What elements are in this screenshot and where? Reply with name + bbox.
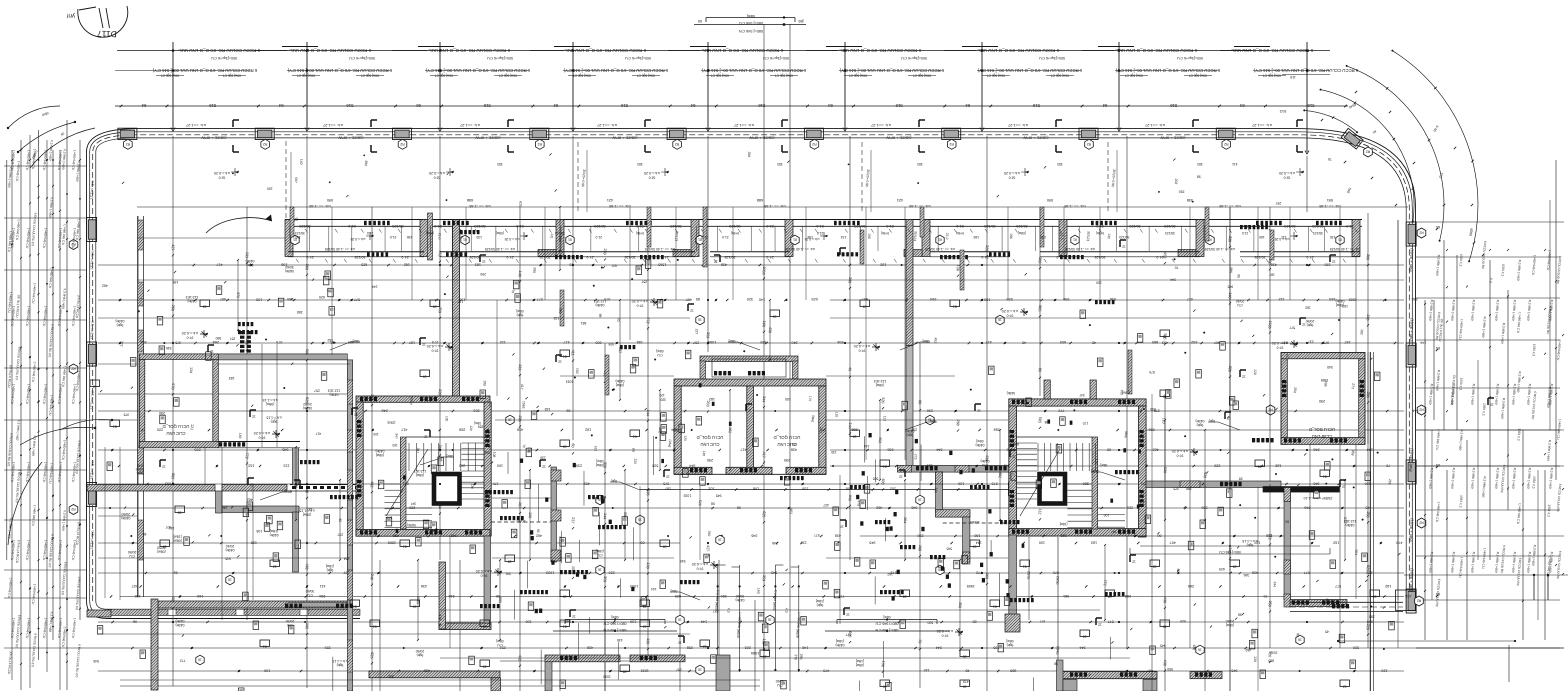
svg-text:500=]3qc+6 C'U: 500=]3qc+6 C'U: [487, 56, 513, 60]
svg-text:237: 237: [571, 517, 576, 523]
svg-text:30/123: 30/123: [1016, 224, 1027, 228]
beam text in top band: [89, 123, 1414, 592]
svg-text:131: 131: [550, 233, 554, 239]
svg-text:187: 187: [409, 341, 415, 345]
svg-text:520: 520: [1353, 646, 1359, 650]
svg-text:130: 130: [444, 416, 448, 422]
svg-text:130: 130: [476, 235, 482, 239]
svg-text:00w] 9gb C'f: 00w] 9gb C'f: [499, 74, 517, 78]
svg-text:290: 290: [480, 272, 486, 276]
svg-text:359: 359: [438, 307, 443, 313]
svg-text:290: 290: [558, 307, 562, 313]
svg-text:21-0: 21-0: [390, 235, 397, 239]
svg-text:170: 170: [1094, 458, 1098, 464]
svg-text:12: 12: [1302, 323, 1306, 327]
svg-text:417: 417: [401, 428, 407, 432]
svg-text:500=]3qc+6 C'U: 500=]3qc+6 C'U: [901, 56, 927, 60]
svg-text:45: 45: [848, 367, 852, 371]
svg-text:577: 577: [1108, 620, 1114, 624]
svg-text:20/50: 20/50: [136, 467, 145, 471]
svg-text:21-0: 21-0: [1059, 233, 1064, 240]
svg-text:130: 130: [1330, 235, 1336, 239]
svg-text:340: 340: [1313, 482, 1319, 486]
dimension ladders under central core: [714, 565, 742, 672]
svg-text:9gb): 9gb): [1209, 419, 1215, 423]
svg-text:160: 160: [985, 573, 990, 579]
svg-text:427: 427: [823, 503, 829, 507]
svg-text:577: 577: [1335, 584, 1341, 588]
svg-text:195: 195: [1325, 263, 1331, 267]
svg-text:187: 187: [457, 299, 463, 303]
svg-text:0+9b): 0+9b): [956, 231, 964, 235]
svg-text:130: 130: [924, 668, 930, 672]
svg-text:61: 61: [263, 644, 267, 648]
right core treads: [1017, 442, 1038, 444]
extra interior grid lines: [98, 207, 1404, 691]
svg-text:9gb): 9gb): [117, 323, 124, 327]
svg-text:417: 417: [740, 448, 746, 452]
svg-text:438: 438: [1252, 571, 1258, 575]
svg-text:C'U: C'U: [497, 643, 503, 647]
svg-text:16: 16: [698, 318, 702, 322]
svg-text:61: 61: [568, 238, 572, 242]
svg-text:936: 936: [1110, 297, 1116, 301]
svg-text:570: 570: [604, 297, 610, 301]
right half long verticals: [1152, 207, 1398, 691]
svg-text:383: 383: [777, 162, 783, 166]
svg-text:30/123: 30/123: [1164, 224, 1175, 228]
svg-text:(18/2E + 9PW: (18/2E + 9PW: [338, 136, 363, 141]
svg-text:30/123: 30/123: [299, 224, 310, 228]
svg-text:12: 12: [977, 409, 981, 413]
svg-text:70: 70: [511, 289, 515, 293]
svg-text:160: 160: [974, 534, 980, 538]
svg-text:288: 288: [1125, 594, 1131, 598]
svg-text:30/60: 30/60: [736, 594, 745, 598]
svg-text:344: 344: [1272, 581, 1276, 587]
svg-text:19: 19: [963, 684, 967, 688]
east corridor beam y484: [1146, 352, 1568, 691]
svg-text:268: 268: [1412, 297, 1418, 301]
svg-text:1565: 1565: [1349, 298, 1357, 302]
svg-text:545: 545: [93, 659, 99, 663]
svg-text:427: 427: [171, 244, 176, 250]
svg-text:220: 220: [1214, 464, 1220, 468]
svg-text:D117: D117: [97, 29, 117, 40]
svg-text:187: 187: [1344, 340, 1350, 344]
svg-text:958: 958: [1149, 428, 1155, 432]
svg-text:605: 605: [294, 480, 299, 486]
svg-text:9gb): 9gb): [1247, 543, 1254, 547]
svg-text:16: 16: [1198, 648, 1202, 652]
svg-text:21-0: 21-0: [886, 224, 893, 228]
svg-text:19: 19: [563, 594, 567, 598]
right margin vertical dim lines upper: [1433, 300, 1435, 420]
svg-text:344: 344: [370, 394, 375, 400]
svg-text:885: 885: [1038, 305, 1043, 311]
band end cap bottom right: [1396, 590, 1416, 611]
svg-text:u.k. == -1.48: u.k. == -1.48: [764, 204, 785, 208]
svg-text:411: 411: [320, 584, 326, 588]
hexagons below wall: [291, 235, 299, 245]
svg-text:30/123: 30/123: [594, 224, 605, 228]
svg-text:290: 290: [917, 534, 923, 538]
svg-text:500=]3qc+6 C'U: 500=]3qc+6 C'U: [211, 56, 237, 60]
svg-text:438: 438: [791, 448, 797, 452]
svg-text:131: 131: [841, 235, 847, 239]
svg-text:97-0: 97-0: [186, 336, 193, 340]
svg-text:(08w]: (08w]: [376, 453, 384, 457]
svg-text:78: 78: [1328, 157, 1332, 161]
left margin extra vertical dim lines: [7, 135, 82, 690]
svg-text:248: 248: [382, 409, 388, 413]
left outer angled arrows: [60, 419, 112, 430]
svg-text:359: 359: [760, 340, 766, 344]
svg-text:257: 257: [314, 388, 320, 392]
left core stair treads: [385, 483, 401, 485]
svg-text:453: 453: [438, 250, 443, 256]
svg-text:81: 81: [563, 624, 567, 628]
svg-text:625: 625: [518, 201, 522, 207]
svg-text:12: 12: [162, 465, 166, 469]
svg-text:417: 417: [520, 384, 524, 390]
svg-text:00w] 9gb C'f: 00w] 9gb C'f: [1051, 74, 1069, 78]
annotations bottom-left rooms: [121, 498, 349, 601]
svg-text:10: 10: [1163, 624, 1167, 628]
svg-text:21-0: 21-0: [945, 233, 950, 240]
svg-text:170: 170: [792, 442, 798, 446]
svg-text:0+9b): 0+9b): [636, 231, 644, 235]
svg-text:479: 479: [963, 679, 969, 683]
north wall extra labels and ties: [290, 226, 1335, 251]
svg-text:(08w]: (08w]: [496, 231, 504, 235]
svg-text:u.k. == -1.48: u.k. == -1.48: [309, 204, 330, 208]
svg-text:20/50: 20/50: [121, 512, 130, 516]
svg-text:453: 453: [1163, 252, 1168, 258]
svg-text:00w] 9gb C'f: 00w] 9gb C'f: [637, 74, 655, 78]
bottom band right side: [1290, 601, 1403, 603]
svg-text:407: 407: [612, 264, 618, 268]
svg-text:08w]: 08w]: [1012, 442, 1019, 446]
svg-text:08w]: 08w]: [447, 454, 454, 458]
svg-text:u.k.=-1.15: u.k.=-1.15: [263, 398, 278, 402]
svg-text:00w] 9gb C'f: 00w] 9gb C'f: [1125, 74, 1143, 78]
svg-text:427: 427: [706, 545, 711, 551]
svg-text:144: 144: [864, 444, 870, 448]
svg-text:134: 134: [189, 367, 194, 373]
svg-text:162: 162: [545, 407, 551, 411]
svg-text:u.k. == -1.40 30/125: u.k. == -1.40 30/125: [1330, 247, 1360, 251]
svg-text:257: 257: [713, 609, 719, 613]
svg-text:08w]: 08w]: [729, 339, 736, 343]
top-right corner dimension arcs: [1279, 50, 1493, 283]
svg-text:70: 70: [522, 444, 526, 448]
svg-text:12: 12: [678, 641, 682, 645]
svg-text:30/125: 30/125: [1255, 255, 1266, 259]
svg-text:347: 347: [394, 433, 398, 439]
svg-text:340: 340: [791, 341, 797, 345]
svg-text:203: 203: [140, 340, 146, 344]
svg-text:347: 347: [411, 501, 417, 505]
svg-text:0&9b): 0&9b): [329, 393, 338, 397]
svg-text:R2: R2: [1419, 231, 1423, 235]
svg-text:438: 438: [438, 614, 443, 620]
svg-text:(18/2E + 9PW: (18/2E + 9PW: [201, 136, 226, 141]
dimension ticks on horizontal grid lines: [109, 263, 1426, 673]
svg-text:64: 64: [965, 103, 970, 108]
svg-text:08w]: 08w]: [883, 615, 890, 619]
svg-text:00w] 9gb C'f: 00w] 9gb C'f: [913, 74, 931, 78]
junction dots on grid crossings: [172, 264, 1308, 649]
svg-text:246: 246: [1366, 314, 1371, 320]
svg-text:9gb): 9gb): [517, 313, 524, 317]
svg-text:24-0: 24-0: [1156, 255, 1163, 259]
columns on left edge band: [87, 218, 97, 242]
svg-text:R2: R2: [1366, 150, 1370, 154]
svg-text:121: 121: [190, 424, 195, 430]
svg-text:R2: R2: [126, 142, 130, 146]
svg-text:85: 85: [1236, 274, 1240, 278]
bottom zone extra annotations: [93, 619, 1344, 696]
svg-text:81: 81: [353, 604, 357, 608]
svg-text:438: 438: [421, 584, 427, 588]
svg-text:320: 320: [747, 297, 753, 301]
bottom mid bracket small: [1130, 545, 1330, 554]
svg-text:290: 290: [159, 411, 165, 415]
svg-text:24-0: 24-0: [766, 255, 773, 259]
svg-text:344: 344: [1413, 409, 1419, 413]
svg-text:160: 160: [756, 588, 760, 594]
svg-text:112: 112: [488, 401, 492, 407]
svg-text:347: 347: [1111, 529, 1117, 533]
svg-text:100: 100: [1039, 541, 1045, 545]
interior north wall double line: [285, 198, 1362, 466]
svg-text:945: 945: [1160, 644, 1166, 648]
svg-text:64: 64: [1239, 103, 1244, 108]
svg-text:550: 550: [215, 336, 221, 340]
svg-text:64: 64: [828, 103, 833, 108]
core area tag clusters: [373, 383, 1151, 548]
dark rebar dash clusters on wall: [364, 221, 367, 225]
svg-text:05: 05: [698, 19, 702, 23]
svg-text:(08w]: (08w]: [1018, 231, 1026, 235]
svg-text:144: 144: [603, 513, 608, 519]
svg-text:257: 257: [676, 667, 682, 671]
svg-text:u.k.=-0.20: u.k.=-0.20: [1279, 171, 1295, 175]
svg-text:08w]: 08w]: [596, 459, 603, 463]
svg-text:130: 130: [630, 620, 636, 624]
svg-text:688: 688: [467, 198, 473, 202]
svg-text:CLIC LNU: CLIC LNU: [166, 431, 185, 436]
svg-text:453: 453: [878, 437, 883, 443]
svg-text:0&9b): 0&9b): [835, 643, 844, 647]
svg-text:375: 375: [236, 292, 241, 298]
svg-text:945: 945: [451, 534, 457, 538]
svg-text:81: 81: [1323, 474, 1327, 478]
svg-text:15: 15: [623, 669, 627, 673]
svg-text:936: 936: [1063, 297, 1069, 301]
svg-text:30/125: 30/125: [355, 255, 366, 259]
svg-text:100: 100: [497, 464, 503, 468]
svg-text:97-0: 97-0: [696, 567, 703, 571]
svg-text:(08w]: (08w]: [856, 663, 864, 667]
svg-text:080=] 946 C'U: 080=] 946 C'U: [875, 622, 898, 626]
svg-text:UCI.U QOL_D: UCI.U QOL_D: [774, 435, 801, 440]
svg-text:102: 102: [890, 487, 896, 491]
svg-text:591: 591: [1327, 198, 1333, 202]
svg-text:162: 162: [593, 445, 597, 451]
svg-text:130: 130: [956, 265, 961, 271]
svg-text:00w] 9gb C'f: 00w] 9gb C'f: [435, 74, 453, 78]
svg-text:1033: 1033: [1270, 650, 1278, 654]
svg-text:12: 12: [1332, 260, 1336, 264]
svg-text:61: 61: [883, 464, 887, 468]
svg-text:130: 130: [646, 562, 651, 568]
svg-text:195: 195: [1141, 482, 1147, 486]
svg-text:605: 605: [1060, 340, 1066, 344]
svg-text:290: 290: [1179, 189, 1185, 193]
svg-text:112: 112: [1038, 508, 1042, 514]
svg-text:383: 383: [497, 162, 503, 166]
svg-text:520: 520: [698, 500, 702, 506]
svg-text:112: 112: [882, 416, 886, 422]
svg-text:u.k.=-0.25: u.k.=-0.25: [350, 237, 365, 241]
svg-text:346: 346: [911, 506, 917, 510]
svg-text:288: 288: [673, 428, 679, 432]
left core walls: [356, 396, 490, 402]
svg-text:61: 61: [403, 544, 407, 548]
svg-text:12: 12: [842, 253, 846, 257]
svg-text:625: 625: [319, 295, 325, 299]
svg-text:18: 18: [1258, 464, 1262, 468]
svg-text:08w]: 08w]: [474, 421, 481, 425]
svg-text:462: 462: [876, 506, 882, 510]
interior thin vertical grid lines: [173, 24, 1368, 691]
svg-text:20/50: 20/50: [416, 649, 425, 653]
svg-text:18: 18: [563, 444, 567, 448]
svg-text:9gb): 9gb): [930, 419, 936, 423]
svg-text:0+9b): 0+9b): [881, 231, 889, 235]
svg-text:438: 438: [1163, 597, 1168, 603]
svg-text:162: 162: [327, 338, 333, 342]
svg-text:417: 417: [315, 432, 321, 436]
svg-text:97-0: 97-0: [636, 304, 643, 308]
svg-text:375: 375: [175, 341, 181, 345]
svg-text:30/123: 30/123: [1313, 231, 1323, 235]
svg-text:133: 133: [245, 252, 250, 258]
svg-text:30/123: 30/123: [1165, 231, 1175, 235]
svg-text:9gb): 9gb): [337, 663, 344, 667]
rotated numbers on vertical grid lines: [171, 236, 1371, 673]
svg-text:545: 545: [287, 297, 293, 301]
svg-text:21-0: 21-0: [367, 231, 374, 235]
svg-text:407: 407: [1170, 541, 1176, 545]
svg-text:R2: R2: [1224, 142, 1228, 146]
svg-text:268: 268: [1366, 511, 1371, 517]
svg-text:273: 273: [992, 482, 998, 486]
svg-text:0&9b): 0&9b): [1091, 469, 1100, 473]
svg-text:21-0: 21-0: [437, 233, 442, 240]
svg-text:08w]: 08w]: [656, 349, 663, 353]
svg-text:550: 550: [1176, 568, 1180, 574]
right core top extension: [1044, 380, 1050, 399]
svg-text:187: 187: [518, 502, 523, 508]
svg-text:500=]3qc+6 C'U: 500=]3qc+6 C'U: [349, 56, 375, 60]
svg-text:945: 945: [225, 556, 231, 560]
svg-text:u.k.=-0.20: u.k.=-0.20: [214, 171, 230, 175]
svg-text:411: 411: [571, 350, 575, 356]
svg-text:64: 64: [416, 103, 421, 108]
svg-text:220: 220: [1366, 623, 1371, 629]
20/40 dashed beam right: [943, 522, 1009, 524]
svg-text:577: 577: [1304, 571, 1310, 575]
svg-text:182: 182: [575, 368, 579, 374]
svg-text:60: 60: [1285, 520, 1289, 524]
svg-text:00w] 9gb C'f: 00w] 9gb C'f: [987, 74, 1005, 78]
svg-text:08w]: 08w]: [1124, 431, 1129, 438]
svg-text:183: 183: [1091, 541, 1097, 545]
svg-text:10: 10: [413, 604, 417, 608]
svg-text:10: 10: [883, 684, 887, 688]
svg-text:359: 359: [1201, 506, 1207, 510]
svg-text:1033: 1033: [603, 674, 611, 678]
svg-text:346: 346: [1244, 573, 1250, 577]
svg-text:520: 520: [927, 620, 933, 624]
svg-text:772: 772: [838, 594, 844, 598]
svg-text:170: 170: [488, 445, 492, 451]
svg-text:(18/2E + 9PW: (18/2E + 9PW: [1160, 136, 1185, 141]
columns on top edge of band: [69, 128, 1440, 613]
svg-text:1033: 1033: [761, 266, 766, 275]
svg-text:20/35: 20/35: [1026, 571, 1031, 580]
svg-text:885: 885: [1229, 267, 1233, 273]
svg-text:R2: R2: [812, 142, 816, 146]
bottom center walls: [545, 655, 1222, 691]
svg-text:02-0: 02-0: [219, 176, 226, 180]
svg-text:462: 462: [247, 498, 253, 502]
svg-text:383: 383: [637, 162, 643, 166]
svg-text:130: 130: [540, 455, 546, 459]
svg-text:100: 100: [1104, 513, 1110, 517]
svg-text:182: 182: [880, 263, 886, 267]
svg-text:196: 196: [807, 235, 813, 239]
svg-text:18: 18: [93, 384, 97, 388]
svg-text:183: 183: [475, 263, 481, 267]
svg-text:144: 144: [1420, 341, 1426, 345]
svg-text:12: 12: [252, 415, 256, 419]
svg-text:24-0: 24-0: [586, 255, 593, 259]
svg-text:C'U: C'U: [307, 593, 313, 597]
svg-text:1565: 1565: [416, 596, 421, 604]
svg-text:195: 195: [993, 646, 999, 650]
svg-text:12: 12: [558, 360, 562, 364]
svg-text:21-0: 21-0: [766, 224, 773, 228]
svg-text:577: 577: [1343, 517, 1348, 523]
svg-text:45: 45: [1365, 506, 1369, 510]
right margin extra lines: [1416, 200, 1564, 648]
svg-text:264: 264: [319, 594, 325, 598]
svg-text:10: 10: [1163, 394, 1167, 398]
svg-text:85: 85: [536, 529, 540, 533]
svg-text:130: 130: [1040, 235, 1046, 239]
svg-text:08w]: 08w]: [285, 489, 292, 493]
svg-text:080=] 946 C'U: 080=] 946 C'U: [603, 622, 626, 626]
svg-text:246: 246: [772, 541, 778, 545]
svg-text:0&9b): 0&9b): [225, 548, 234, 552]
svg-text:u.k.=-0.20: u.k.=-0.20: [476, 569, 493, 573]
svg-text:0&9b): 0&9b): [303, 406, 312, 410]
svg-text:144: 144: [651, 587, 657, 591]
